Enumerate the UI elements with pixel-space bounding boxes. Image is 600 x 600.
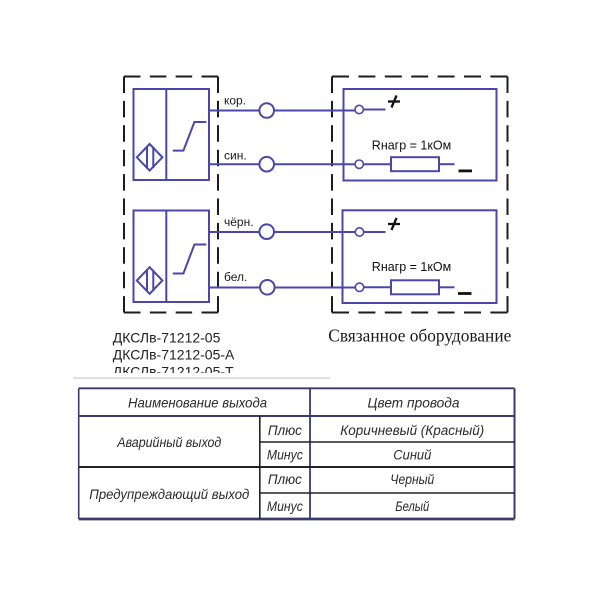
svg-text:Коричневый (Красный): Коричневый (Красный) bbox=[340, 423, 484, 438]
sensor S2 body bbox=[134, 211, 210, 303]
dashed enclosure sensors bbox=[124, 77, 218, 313]
svg-text:бел.: бел. bbox=[224, 270, 247, 284]
plus sign U1 bbox=[388, 96, 400, 108]
svg-text:Rнагр = 1кОм: Rнагр = 1кОм bbox=[372, 260, 451, 274]
svg-text:Связанное оборудование: Связанное оборудование bbox=[328, 326, 511, 346]
wire black bbox=[209, 231, 355, 233]
minus sign U1 bbox=[459, 169, 473, 172]
svg-text:кор.: кор. bbox=[224, 94, 246, 108]
svg-text:Минус: Минус bbox=[267, 499, 303, 514]
wire resistor to minus U2 bbox=[439, 286, 455, 288]
resistor R1 bbox=[391, 157, 439, 171]
svg-text:Плюс: Плюс bbox=[268, 472, 302, 487]
svg-text:Белый: Белый bbox=[395, 499, 429, 514]
terminal minus U1 bbox=[355, 160, 363, 168]
load box U1 bbox=[344, 89, 497, 181]
terminal plus U2 bbox=[355, 228, 363, 236]
svg-text:Черный: Черный bbox=[390, 472, 434, 487]
plus sign U2 bbox=[388, 218, 400, 230]
terminal plus U1 bbox=[355, 105, 363, 113]
svg-text:ДКСЛв-71212-05: ДКСЛв-71212-05 bbox=[113, 330, 221, 346]
connector circle black bbox=[259, 224, 274, 239]
plus lead U2 bbox=[364, 231, 386, 233]
wire terminal to resistor U2 bbox=[364, 286, 391, 288]
plus lead U1 bbox=[364, 109, 386, 111]
wire resistor to minus U1 bbox=[439, 163, 455, 165]
connector circle white bbox=[260, 280, 275, 295]
svg-text:Rнагр = 1кОм: Rнагр = 1кОм bbox=[372, 139, 451, 153]
resistor R2 bbox=[391, 280, 439, 294]
sensor S2 inductive diamond bbox=[137, 267, 163, 294]
wire terminal to resistor U1 bbox=[364, 163, 392, 165]
sensor S2 divider bbox=[165, 211, 167, 303]
load box U2 bbox=[343, 210, 497, 303]
terminal minus U2 bbox=[355, 283, 363, 291]
svg-text:Аварийный выход: Аварийный выход bbox=[116, 434, 221, 450]
wire white bbox=[209, 287, 355, 289]
separator grey line bbox=[73, 377, 330, 379]
svg-text:Синий: Синий bbox=[393, 448, 431, 463]
dashed enclosure equipment bbox=[332, 77, 508, 313]
svg-text:Цвет провода: Цвет провода bbox=[368, 395, 460, 411]
svg-text:син.: син. bbox=[224, 149, 247, 163]
wire brown bbox=[209, 110, 355, 112]
sensor S1 divider bbox=[165, 89, 167, 180]
sensor S1 inductive diamond bbox=[137, 144, 163, 171]
svg-text:Предупреждающий выход: Предупреждающий выход bbox=[89, 486, 249, 502]
connector circle blue bbox=[259, 157, 274, 172]
connector circle brown bbox=[259, 103, 274, 118]
wire blue bbox=[209, 163, 355, 165]
svg-text:чёрн.: чёрн. bbox=[224, 215, 254, 229]
sensor S1 body bbox=[134, 89, 210, 180]
svg-text:ДКСЛв-71212-05-А: ДКСЛв-71212-05-А bbox=[113, 347, 235, 363]
svg-text:Плюс: Плюс bbox=[268, 423, 302, 438]
sensor S1 hysteresis bbox=[173, 122, 207, 151]
svg-text:Минус: Минус bbox=[267, 448, 303, 463]
table grid bbox=[79, 388, 515, 519]
svg-text:Наименование выхода: Наименование выхода bbox=[128, 395, 267, 411]
sensor S2 hysteresis bbox=[173, 245, 207, 274]
minus sign U2 bbox=[458, 292, 472, 295]
